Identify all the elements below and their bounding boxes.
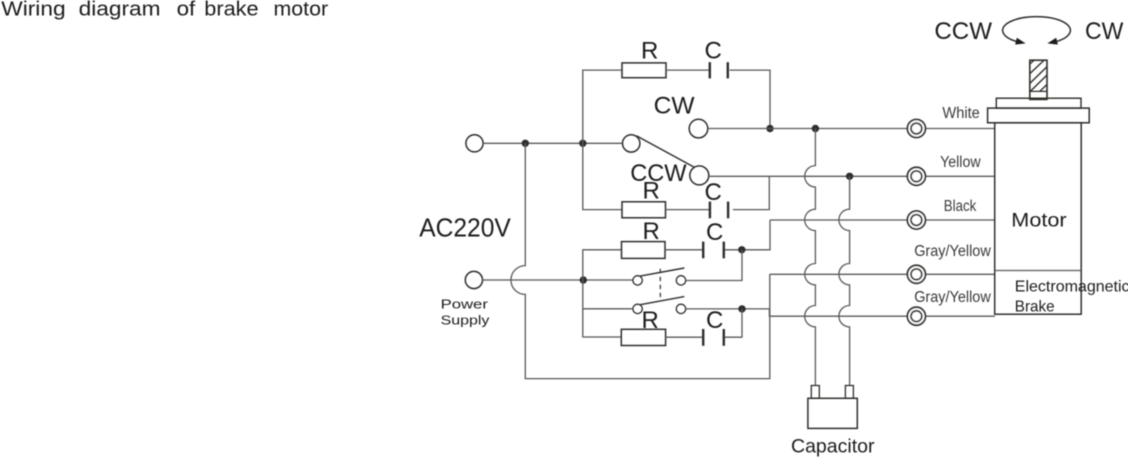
wire DPST lower input [583,308,633,310]
svg-text:Wiring: Wiring [1,0,65,20]
rotation symbol ellipse [1003,17,1071,43]
wire bus B (lower left bus) [583,250,622,337]
svg-text:R: R [643,218,660,245]
wire DPST upper output [686,250,742,281]
wire L2 from T2 to bus [483,279,634,281]
svg-text:CW: CW [1085,18,1124,45]
contact DPST lower-left [633,304,642,313]
resistor R4 [621,329,665,345]
resistor R3 [622,242,666,259]
node Yellow-cap [846,173,853,180]
switch blade DPST upper [640,268,684,276]
capacitor C2 [710,202,728,219]
svg-text:Power: Power [441,297,489,312]
capacitor terminal 1 [811,386,819,399]
node White-cap [812,125,819,132]
node L1-b [579,140,586,147]
wire C1 to CW output [730,70,770,125]
terminal ring Black [907,211,925,229]
wire vertical L1 drop with hop over L2 [511,143,770,378]
resistor R2 [622,202,666,218]
wire R2-C2 [666,209,710,211]
node CW-out [766,125,773,132]
contact DPST upper-left [633,276,642,285]
svg-text:C: C [705,179,722,206]
svg-text:motor: motor [274,0,329,20]
wire R1-C1 [666,69,709,71]
switch blade selector [637,136,695,167]
wire Yellow row [709,175,995,177]
motor neck step [996,98,1081,108]
wire capacitor lead 1 with hops [805,129,816,386]
contact CW circle [689,119,708,138]
contact CCW circle [690,166,709,185]
svg-text:Brake: Brake [1015,298,1055,315]
svg-text:R: R [642,307,659,334]
svg-text:brake: brake [204,0,258,20]
wire R3-C3 [665,249,702,251]
svg-text:Gray/Yellow: Gray/Yellow [914,243,991,260]
terminal ring GY1 [907,265,925,283]
resistor R1 [622,63,666,78]
node L2-bus [580,276,587,283]
wire C3 to Black corner [725,220,770,250]
capacitor C1 [710,62,728,78]
capacitor body [808,398,857,428]
wire capacitor lead 2 with hops [839,176,850,385]
svg-text:of: of [177,0,196,20]
svg-text:C: C [706,219,723,246]
title: Wiring diagram of brake motor [1,0,328,20]
wire C4 riser [725,309,742,337]
dashed link DPST [659,269,661,299]
wire C2 riser to Yellow [733,176,769,209]
motor body [995,123,1081,314]
terminal T2 circle [465,271,482,288]
node R4C4-out [738,305,745,312]
wire DPST lower output to GY2 [686,309,995,316]
svg-text:Yellow: Yellow [940,154,981,171]
contact selector common circle [623,135,640,152]
svg-text:CCW: CCW [934,18,992,45]
motor/brake separator [995,270,1081,272]
svg-text:White: White [942,105,979,122]
svg-text:R: R [641,37,658,64]
node L1-a [522,140,529,147]
terminal T1 circle [466,135,483,152]
capacitor C4 [703,329,724,346]
motor shaft hatched [1030,60,1047,99]
svg-text:C: C [705,37,722,64]
terminal ring Yellow [907,167,925,185]
svg-text:Motor: Motor [1011,209,1067,231]
rotation arrow left [1015,38,1025,45]
svg-text:C: C [706,307,723,334]
rotation arrow right [1047,38,1057,45]
wire White row [708,128,995,130]
wire L1 main [483,142,622,144]
svg-text:Supply: Supply [441,313,490,328]
contact DPST lower-right [676,304,685,313]
wire GY1 row [770,273,995,275]
node R3C3-out [738,246,745,253]
svg-text:diagram: diagram [79,0,161,20]
svg-text:Electromagnetic: Electromagnetic [1015,279,1128,296]
motor flange [988,108,1090,123]
capacitor C3 [703,242,724,259]
terminal ring GY2 [907,307,925,325]
switch blade DPST lower [640,297,684,305]
svg-text:R: R [643,178,660,205]
wire R4-C4 [666,336,703,338]
wire Black row [770,219,995,221]
contact DPST upper-right [676,276,685,285]
wire bus A (upper left bus) [583,70,622,210]
terminal ring White [907,120,925,138]
svg-text:Capacitor: Capacitor [791,435,875,457]
capacitor terminal 2 [845,386,853,399]
svg-text:Black: Black [944,198,977,215]
svg-text:Gray/Yellow: Gray/Yellow [914,289,991,306]
svg-text:AC220V: AC220V [419,213,511,243]
svg-text:CW: CW [654,92,696,119]
